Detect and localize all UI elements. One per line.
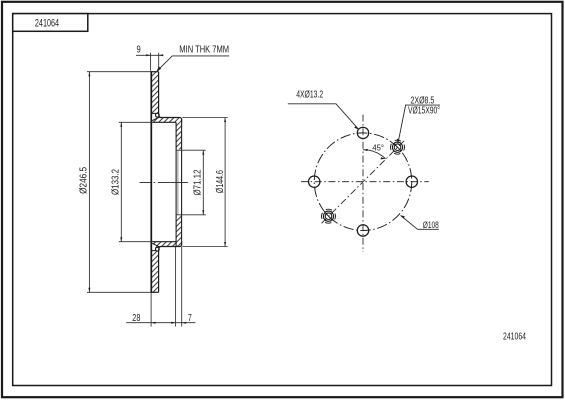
svg-text:Ø71.12: Ø71.12 xyxy=(193,170,204,196)
hatch ring lower xyxy=(151,251,158,293)
csk tick top-right xyxy=(394,144,401,151)
arrows Ø144.6 xyxy=(224,118,226,123)
fillet bump upper xyxy=(156,113,160,117)
left view dim texts xyxy=(79,45,230,324)
csk hole bottom-left countersink dashed xyxy=(322,209,336,223)
leader 4XØ13.2 xyxy=(288,104,359,129)
arrows Ø133.2 xyxy=(120,122,122,127)
leader 2XØ8.5 xyxy=(398,105,440,143)
ring right edge upper xyxy=(159,72,160,117)
flange chamfer lower xyxy=(152,243,160,247)
bolt circle Ø108 xyxy=(314,133,412,231)
fillet bump lower xyxy=(156,247,160,251)
svg-text:241064: 241064 xyxy=(503,331,526,342)
hat wall inner line xyxy=(175,122,177,246)
flange chamfer upper xyxy=(152,117,160,121)
arrow 7 xyxy=(182,322,187,324)
svg-text:241064: 241064 xyxy=(35,17,59,29)
hatch flange lower xyxy=(152,242,181,247)
dim 28/7 line xyxy=(126,322,195,324)
dim Ø71.12 line xyxy=(202,150,204,215)
dim Ø246.5 line xyxy=(88,72,90,293)
dim 9 extension lines xyxy=(150,53,152,71)
svg-text:MIN THK 7MM: MIN THK 7MM xyxy=(179,45,229,56)
arrow leader 4X xyxy=(354,126,359,130)
arrows Ø71.12 xyxy=(202,150,204,155)
bore bottom edge xyxy=(176,214,206,216)
arrows 28 xyxy=(151,322,156,324)
right view arrowheads xyxy=(354,126,405,218)
svg-text:Ø246.5: Ø246.5 xyxy=(79,166,90,193)
csk tick bottom-left xyxy=(325,213,332,220)
section centerline xyxy=(140,181,189,183)
ring top edge xyxy=(151,71,159,73)
csk hole top-right middle xyxy=(392,142,402,152)
svg-text:28: 28 xyxy=(132,313,141,324)
bolt hole right xyxy=(406,176,417,187)
ring bottom edge xyxy=(151,291,159,293)
horizontal centerline xyxy=(301,181,429,183)
leader Ø108 xyxy=(401,216,439,230)
dim Ø246.5 extension lines xyxy=(87,71,151,73)
svg-text:4XØ13.2: 4XØ13.2 xyxy=(296,90,323,101)
angle arc 45 xyxy=(363,150,386,159)
bolt hole bottom xyxy=(357,225,368,236)
bolt hole left xyxy=(309,176,320,187)
outboard face thick line xyxy=(150,71,152,293)
svg-text:Ø108: Ø108 xyxy=(423,220,439,230)
dim 9 line xyxy=(136,54,163,56)
arrows dim 9 (outside) xyxy=(146,54,151,56)
arrow leader 2X xyxy=(397,139,399,144)
csk hole top-right countersink dashed xyxy=(391,140,405,154)
arrow arc45 right xyxy=(381,157,386,159)
bore inner gray line xyxy=(177,150,179,215)
hatch hat wall upper xyxy=(176,122,182,150)
svg-text:9: 9 xyxy=(137,45,141,56)
vertical centerline xyxy=(362,115,364,253)
diagonal centerline 45deg xyxy=(322,140,406,223)
dim Ø133.2 line xyxy=(120,122,122,241)
dim 28/7 extension lines xyxy=(150,293,152,327)
hatch flange upper xyxy=(152,117,181,122)
svg-text:VØ15X90°: VØ15X90° xyxy=(408,106,440,117)
undercut notch lower xyxy=(151,246,159,250)
dim Ø133.2 extension lines xyxy=(119,121,152,123)
svg-text:Ø144.6: Ø144.6 xyxy=(215,170,226,193)
bore top edge xyxy=(176,149,206,151)
flange top edge xyxy=(160,117,182,122)
arrow arc45 left xyxy=(363,149,368,151)
arrowheads left view xyxy=(88,54,226,323)
hatch hat wall lower xyxy=(176,215,182,242)
hatch ring upper xyxy=(151,72,158,114)
dim Ø144.6 line xyxy=(224,118,226,247)
arrow MIN THK leader xyxy=(157,66,162,71)
flange top edge lower xyxy=(152,241,176,243)
hat wall outer line xyxy=(181,119,183,247)
flange bottom edge upper xyxy=(152,121,176,123)
arrow leader Ø108 xyxy=(400,215,405,218)
svg-text:45°: 45° xyxy=(372,143,384,153)
csk hole top-right inner xyxy=(394,144,401,151)
dim Ø144.6 extension lines xyxy=(182,117,227,119)
svg-text:7: 7 xyxy=(188,313,192,324)
csk hole bottom-left inner xyxy=(325,213,332,220)
arrows Ø246.5 xyxy=(88,72,90,77)
title box xyxy=(13,14,88,32)
ring right edge lower xyxy=(159,247,160,292)
undercut notch upper xyxy=(151,113,159,117)
svg-text:Ø133.2: Ø133.2 xyxy=(110,169,121,195)
leader MIN THK xyxy=(157,56,229,71)
right view texts xyxy=(296,90,440,230)
csk hole bottom-left middle xyxy=(323,211,333,221)
flange bottom edge lower xyxy=(160,242,182,247)
bolt hole top xyxy=(357,127,368,138)
